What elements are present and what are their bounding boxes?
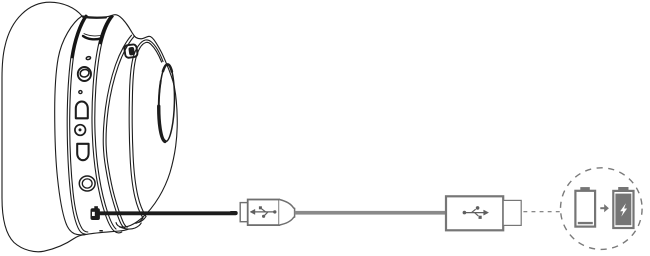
button: knob outer bbox=[78, 67, 91, 81]
small port inner dark bbox=[128, 47, 135, 56]
yoke fold upper line bbox=[84, 34, 103, 36]
cushion crease line 1 bbox=[129, 40, 163, 218]
usb port dark blob bbox=[91, 208, 100, 220]
yoke top edge dark bar bbox=[83, 16, 106, 19]
yoke top edge bbox=[82, 15, 141, 39]
left plug body bbox=[248, 200, 280, 226]
button: knob inner bbox=[79, 68, 90, 78]
right battery nub bbox=[618, 187, 628, 191]
left battery low bar bbox=[578, 222, 593, 224]
usb cable assembly bbox=[240, 200, 294, 226]
right battery outline bbox=[613, 191, 633, 228]
right seam line 1 bbox=[92, 16, 122, 233]
right seam line 2 bbox=[95, 16, 116, 229]
small port on yoke band bbox=[124, 44, 138, 58]
inner hole ellipse bbox=[158, 64, 176, 142]
button: ring port bbox=[79, 176, 95, 191]
cushion silhouette from notch over crest down around bbox=[116, 36, 177, 227]
face band line 1 bbox=[103, 35, 131, 228]
button: tiny oval bbox=[86, 56, 91, 60]
inner hole top arc bbox=[163, 64, 172, 71]
button: small dot bbox=[79, 91, 82, 94]
right usb symbol bbox=[463, 206, 489, 219]
cushion crease hook 2 bbox=[139, 217, 146, 223]
right seam dark hatch bbox=[100, 16, 112, 43]
cushion crease line 2 bbox=[132, 42, 161, 216]
button: arch button top bbox=[76, 102, 88, 119]
left plug taper bbox=[279, 200, 294, 226]
grey cable bbox=[295, 211, 447, 215]
black charging cable bbox=[95, 211, 238, 215]
left seam line 2 bbox=[70, 16, 88, 232]
tiny dash below port bbox=[99, 230, 102, 232]
yoke fold dark bbox=[83, 36, 102, 39]
black cable stub left of plug bbox=[229, 211, 237, 215]
cup shell left rim curve bbox=[55, 16, 128, 235]
cushion bottom tail arc bbox=[120, 223, 142, 229]
left plug tab bbox=[240, 203, 248, 222]
left seam line 1 bbox=[67, 16, 85, 234]
inner hole thick crescent bottom-left bbox=[158, 106, 166, 141]
dashed circle bbox=[561, 168, 643, 250]
headphone earcup line art bbox=[2, 2, 177, 252]
left usb symbol bbox=[250, 206, 276, 218]
arrow between batteries bbox=[600, 207, 604, 209]
right usb-a connector bbox=[446, 196, 521, 230]
inner hole medium crescent left bbox=[159, 81, 161, 107]
left seam dark hatch bbox=[72, 16, 86, 57]
left battery outline bbox=[575, 191, 595, 227]
headband outer edge bbox=[2, 2, 85, 252]
right battery fill bbox=[615, 194, 631, 226]
button: arch button bottom bbox=[77, 144, 88, 160]
left battery nub bbox=[580, 187, 590, 191]
lightning bolt bbox=[620, 203, 627, 216]
cushion crease hook 1 bbox=[136, 218, 143, 223]
button: circle-dot bbox=[75, 125, 86, 136]
inner hole group bbox=[158, 64, 176, 142]
face band line 2 bbox=[106, 36, 134, 227]
dashed connection line bbox=[523, 211, 561, 213]
